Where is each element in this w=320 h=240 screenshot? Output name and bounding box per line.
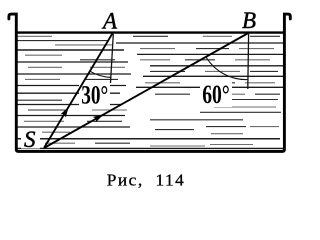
svg-text:60°: 60° [202, 79, 230, 109]
svg-text:B: B [242, 8, 256, 33]
svg-text:A: A [101, 9, 118, 34]
svg-text:S: S [24, 127, 36, 152]
svg-text:30°: 30° [81, 81, 108, 110]
svg-text:Рис, 114: Рис, 114 [107, 171, 185, 190]
